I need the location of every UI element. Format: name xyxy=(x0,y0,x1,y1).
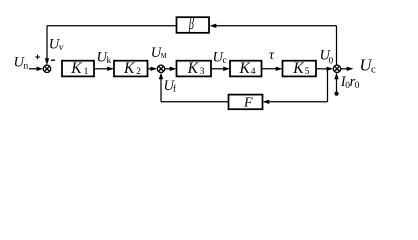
wire: K4 to K5 xyxy=(262,67,283,71)
node label UM xyxy=(151,45,167,61)
svg-text:4: 4 xyxy=(251,67,256,77)
svg-text:K: K xyxy=(239,60,251,77)
block K1 xyxy=(62,60,94,77)
wire: output arrow Uc xyxy=(341,67,354,71)
svg-text:k: k xyxy=(107,56,112,66)
svg-text:n: n xyxy=(24,61,29,71)
block K5 xyxy=(283,60,317,77)
block beta xyxy=(177,14,210,32)
plus sign at summing junction 1 xyxy=(35,55,40,60)
svg-text:2: 2 xyxy=(136,67,141,77)
wire: K5 to summing junction 3 (with feedback tap) xyxy=(316,67,333,71)
svg-text:K: K xyxy=(292,60,304,77)
node label Uc (output) xyxy=(360,55,377,75)
minus sign at summing junction 1 xyxy=(51,59,55,61)
wire: top rail left segment (beta output to drop) xyxy=(47,25,177,27)
summing junction 3 xyxy=(333,65,340,72)
block K3 xyxy=(177,60,212,77)
svg-text:F: F xyxy=(243,95,253,110)
node label Uf xyxy=(164,78,177,95)
wire: top rail right segment (output node to beta) xyxy=(210,24,337,28)
svg-text:c: c xyxy=(371,64,376,75)
node label Uc (control voltage) xyxy=(213,49,227,66)
wire: bottom rail right segment (tap to F block) xyxy=(263,100,328,104)
block K2 xyxy=(114,60,148,77)
svg-text:v: v xyxy=(59,43,64,53)
summing junction 1 xyxy=(43,65,50,72)
svg-text:f: f xyxy=(173,84,177,95)
node label Uv xyxy=(49,37,64,54)
wire: armature-drop input I0r0 into summing junction 3 xyxy=(334,73,338,94)
svg-text:K: K xyxy=(187,60,199,77)
node label Uk xyxy=(97,49,112,66)
svg-text:0: 0 xyxy=(355,81,360,91)
node label tau xyxy=(269,48,275,63)
wire: feedback drop into summing junction 1 xyxy=(45,26,49,65)
wire: K2 to summing junction 2 xyxy=(148,67,158,71)
node label U0 xyxy=(320,47,334,66)
svg-text:0: 0 xyxy=(329,57,334,67)
svg-text:c: c xyxy=(223,56,227,66)
wire: input Un into summing junction 1 xyxy=(29,67,43,71)
svg-text:M: M xyxy=(161,53,167,60)
wire: riser into summing junction 2 xyxy=(159,73,163,102)
svg-text:3: 3 xyxy=(200,67,205,77)
svg-text:τ: τ xyxy=(269,48,275,63)
block F xyxy=(229,95,263,111)
svg-text:1: 1 xyxy=(84,67,89,77)
wire: K1 to K2 xyxy=(94,67,114,71)
node dot at I0r0 source xyxy=(334,92,338,96)
block K4 xyxy=(230,60,262,77)
node label Un xyxy=(14,54,29,71)
svg-text:K: K xyxy=(123,60,135,77)
wire: load feedback tap down from main line xyxy=(327,69,329,102)
node label I0r0 xyxy=(340,74,360,91)
wire: output node riser to top rail xyxy=(336,26,338,65)
wire: K3 to K4 xyxy=(211,67,230,71)
svg-text:K: K xyxy=(70,60,82,77)
summing junction 2 xyxy=(157,65,164,72)
wire: bottom rail left segment (F block to riser) xyxy=(161,101,229,103)
svg-text:5: 5 xyxy=(305,67,310,77)
wire: summing junction 2 to K3 xyxy=(165,67,177,71)
svg-text:β: β xyxy=(188,14,194,32)
